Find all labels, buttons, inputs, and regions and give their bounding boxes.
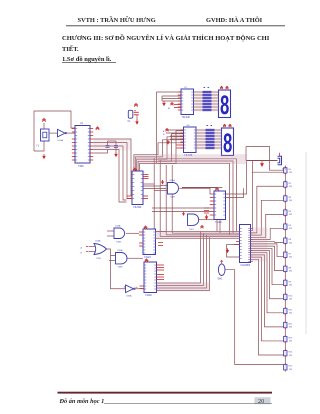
- wire: segment bus 3 wrap to U6: [137, 137, 184, 171]
- buzzer/cap Y2 (oval): [218, 264, 225, 276]
- wire: [162, 100, 181, 102]
- svg-text:330: 330: [289, 284, 292, 286]
- IC U2 7400: [214, 191, 226, 220]
- resistor R14 (ladder): [284, 350, 287, 355]
- power VCC: [201, 226, 204, 229]
- wire: G-top output to U4: [126, 232, 139, 234]
- wire: G5 output to U5: [127, 257, 143, 259]
- svg-text:74LS90: 74LS90: [133, 206, 142, 209]
- wire: U1 QA to U6: [93, 139, 132, 196]
- power VCC: [171, 103, 174, 106]
- IC U3 74LS244: [240, 225, 251, 263]
- footer page-number highlight: [255, 397, 271, 404]
- wire: to ladder element 15: [225, 270, 284, 365]
- wire: G4 out to G5: [107, 249, 116, 256]
- svg-text:R8: R8: [289, 267, 292, 269]
- marker at G1 input: [161, 182, 164, 185]
- ground below C1: [135, 121, 139, 124]
- wire: [212, 91, 219, 93]
- wire: U2 out 2: [226, 188, 244, 197]
- resistor R5 (ladder): [284, 224, 287, 229]
- wire: vertical feeder 5: [171, 165, 173, 233]
- wire: U3 to R1: [251, 172, 284, 231]
- svg-text:330: 330: [289, 327, 292, 329]
- resistor R7 (ladder): [284, 252, 287, 257]
- ground below crystal: [42, 156, 46, 159]
- wire: segment bus 4 wrap to U6: [135, 140, 183, 171]
- wire: [143, 183, 154, 185]
- wire: [215, 147, 222, 149]
- wire: [194, 97, 203, 99]
- wire: vertical feeder 4: [165, 165, 167, 235]
- wire: U3 to R12: [251, 255, 284, 327]
- ground below C3: [114, 154, 118, 157]
- svg-text:U15A: U15A: [117, 249, 123, 252]
- buzzer SP1: [278, 156, 282, 165]
- U3 right pin stubs: [251, 229, 253, 262]
- svg-text:R2: R2: [289, 183, 292, 185]
- buffer U10A: [58, 129, 66, 137]
- wire: to U7 pin A: [157, 91, 182, 93]
- wire: [143, 185, 160, 187]
- wire: [215, 135, 222, 137]
- svg-text:330: 330: [289, 214, 292, 216]
- wire: bus riser right 2: [158, 161, 233, 233]
- wire: [166, 132, 184, 134]
- svg-text:Đồ án môn học 1: Đồ án môn học 1: [59, 398, 105, 405]
- wire: G5 input 2: [109, 260, 116, 262]
- svg-text:7432: 7432: [96, 258, 102, 260]
- wire: segment bus 2 wrap to U6: [138, 134, 183, 171]
- resistor R4 (ladder): [284, 210, 287, 215]
- wire: U3 to R6: [251, 241, 284, 244]
- wire: G-top input 2: [107, 235, 114, 237]
- svg-text:R14: R14: [289, 352, 294, 354]
- wire: [212, 106, 219, 108]
- wire: vertical feeder 1: [156, 92, 158, 163]
- ground at driver1 inputs: [162, 103, 166, 106]
- svg-text:C1: C1: [128, 121, 132, 123]
- footer rule: [58, 392, 273, 394]
- wire: [108, 140, 117, 142]
- wire: bus H1 row 1: [156, 231, 240, 233]
- svg-text:R15: R15: [289, 366, 294, 368]
- wire: buzzer drive: [246, 160, 278, 162]
- power VCC: [215, 188, 219, 191]
- resistor R8 (ladder): [284, 266, 287, 271]
- wire: [196, 135, 206, 137]
- wire: U3 to R3: [251, 200, 284, 235]
- wire: G3 input 1: [182, 187, 217, 189]
- svg-text:R10: R10: [289, 295, 294, 297]
- power VCC: [144, 226, 148, 229]
- IC U8 74LS48 (digit 2 driver): [184, 127, 197, 153]
- svg-text:330: 330: [289, 299, 292, 301]
- resistor R15 (ladder): [284, 365, 287, 370]
- IC U1 7490: [75, 126, 90, 164]
- svg-text:330: 330: [289, 186, 292, 188]
- wire: [170, 138, 184, 140]
- power VCC: [220, 86, 223, 89]
- wire: to U3 enable: [227, 244, 240, 246]
- wire: G1 input 1: [160, 185, 167, 187]
- power VCC: [226, 86, 229, 89]
- wire: buzzer net to ladder top: [246, 147, 284, 171]
- wire: U3 to R14: [251, 259, 284, 355]
- wire: U6 to U2 row 1: [152, 207, 210, 209]
- svg-text:R7: R7: [289, 253, 292, 255]
- wire: U3 to R10: [251, 251, 284, 299]
- wire: U1 QC to U6: [93, 146, 126, 200]
- wire: bus riser right 3: [158, 163, 230, 235]
- wire: [196, 141, 206, 143]
- wire: U2 bottom riser 2: [219, 220, 221, 234]
- wire: G-top input 1: [107, 230, 114, 232]
- svg-text:330: 330: [289, 313, 292, 315]
- wire: G3 output: [199, 219, 214, 221]
- red marks at U3 left: [234, 242, 239, 245]
- wire: [215, 129, 222, 131]
- resistor R10 (ladder): [284, 294, 287, 299]
- svg-text:7408: 7408: [118, 267, 124, 269]
- wire: segment bus 5 wrap to U6: [134, 143, 184, 171]
- svg-text:8: 8: [220, 90, 229, 120]
- svg-text:74122: 74122: [215, 221, 222, 224]
- svg-text:330: 330: [289, 200, 292, 202]
- svg-text:330: 330: [289, 256, 292, 258]
- wire: U5 riser 1: [157, 232, 201, 284]
- wire: segment bus 1 wrap to U6: [140, 131, 184, 171]
- wire: [215, 144, 222, 146]
- svg-text:CHƯƠNG III: SƠ ĐỒ NGUYÊN LÍ VÀ: CHƯƠNG III: SƠ ĐỒ NGUYÊN LÍ VÀ GIẢI THÍC…: [62, 34, 270, 42]
- svg-text:8: 8: [223, 128, 232, 158]
- wire: [156, 231, 167, 233]
- svg-text:U10A: U10A: [58, 139, 64, 142]
- svg-text:74192: 74192: [145, 294, 152, 297]
- wire: oscillator feedback loop: [34, 111, 75, 151]
- wire: vertical feeder 2: [153, 158, 155, 238]
- svg-text:330: 330: [289, 369, 292, 371]
- svg-text:20: 20: [258, 398, 264, 405]
- wire: U3 enable loop: [227, 245, 240, 258]
- IC U6 74LS47: [132, 171, 143, 205]
- wire: bus H1 row 2: [172, 232, 239, 234]
- AND gate U13A (top): [114, 228, 125, 239]
- svg-text:BI: BI: [168, 108, 170, 110]
- wire: U5 riser 4: [157, 237, 210, 291]
- wire: vertical feeder 3: [159, 160, 161, 237]
- svg-text:SW1: SW1: [218, 279, 224, 281]
- power VCC: [223, 124, 226, 127]
- wire: [215, 141, 222, 143]
- bus shading: [93, 91, 267, 291]
- svg-text:U11A: U11A: [170, 179, 176, 182]
- resistor R3 (ladder): [284, 196, 287, 201]
- wire: [196, 147, 206, 149]
- resistor R2 (ladder): [284, 182, 287, 187]
- wire: [194, 94, 203, 96]
- svg-text:R5: R5: [289, 225, 292, 227]
- wire: U3 to R13: [251, 257, 284, 341]
- svg-text:A: A: [163, 130, 165, 133]
- svg-text:R11: R11: [289, 310, 293, 312]
- svg-text:330: 330: [289, 228, 292, 230]
- svg-text:R1: R1: [289, 169, 292, 171]
- power VCC: [166, 129, 169, 132]
- wire: U3 to R4: [251, 214, 284, 237]
- power VCC: [134, 104, 138, 107]
- wire: [196, 129, 206, 131]
- wire: bus H1 row 4: [160, 236, 239, 238]
- AND gate U11A: [168, 183, 179, 195]
- wire: [194, 106, 203, 108]
- marker on U3 enable: [226, 250, 229, 253]
- wire: U5 riser 3: [157, 235, 207, 288]
- svg-text:TIẾT.: TIẾT.: [62, 45, 79, 53]
- wire: bus H1 row 5: [154, 237, 239, 239]
- ground at driver2 inputs: [166, 141, 170, 144]
- wire: [196, 144, 206, 146]
- wire: buffer to U1: [67, 132, 75, 134]
- wire: bus riser right 1: [158, 159, 237, 232]
- wire: U3 to R11: [251, 253, 284, 313]
- buffer U16A: [126, 285, 134, 293]
- wire: [170, 135, 184, 137]
- wire: [194, 91, 203, 93]
- svg-text:U16A: U16A: [126, 295, 132, 298]
- wire: [212, 103, 219, 105]
- wire: G4 input 1: [89, 246, 96, 248]
- svg-text:7408: 7408: [116, 242, 122, 244]
- svg-text:330: 330: [289, 242, 292, 244]
- svg-text:U13A: U13A: [115, 225, 121, 228]
- svg-text:330: 330: [289, 341, 292, 343]
- wire: crystal to buffer: [49, 132, 58, 134]
- svg-text:SVTH : TRẦN HỮU HƯNG: SVTH : TRẦN HỮU HƯNG: [78, 16, 156, 24]
- svg-text:7490: 7490: [78, 165, 84, 168]
- wire: G3 input 2: [182, 187, 223, 189]
- red pin cluster left of U2: [204, 208, 209, 213]
- wire: buzzer net to stair vertical: [251, 161, 253, 173]
- ground on buzzer wire: [260, 163, 264, 167]
- wire: [212, 109, 219, 111]
- capacitor C1: [128, 110, 133, 118]
- svg-text:B: B: [81, 253, 83, 255]
- wire: crystal top stub: [43, 123, 45, 129]
- svg-text:R3: R3: [289, 197, 292, 199]
- power VCC: [229, 124, 232, 127]
- svg-text:7411: 7411: [189, 229, 194, 231]
- svg-text:330: 330: [289, 172, 292, 174]
- wire: U3 to R7: [251, 244, 284, 257]
- wire to C2: [93, 150, 107, 154]
- wire: G1 output to U2: [179, 188, 214, 194]
- svg-text:U14A: U14A: [95, 240, 101, 243]
- crystal Y1: [41, 129, 50, 141]
- wire: U6 to U2 row 2: [152, 211, 210, 213]
- wire: [194, 109, 203, 111]
- wire: U2 bottom riser 1: [216, 220, 218, 232]
- resistor R12 (ladder): [284, 322, 287, 327]
- wire: G4 out to buffer T2: [111, 256, 126, 289]
- AND gate U12B: [188, 214, 199, 225]
- svg-text:330: 330: [289, 270, 292, 272]
- svg-text:ULN2803: ULN2803: [241, 265, 251, 267]
- wire: G4 input 2: [89, 251, 96, 253]
- wire: U1 QB to U6: [93, 143, 132, 199]
- wire: [162, 98, 181, 100]
- svg-text:R9: R9: [289, 281, 292, 283]
- svg-text:R13: R13: [289, 338, 294, 340]
- wire: U3 to R9: [251, 248, 284, 284]
- wire: [215, 138, 222, 140]
- svg-text:1.Sơ đồ nguyên lì.: 1.Sơ đồ nguyên lì.: [62, 56, 112, 63]
- wire: [162, 95, 181, 97]
- IC U4 7400: [143, 229, 156, 255]
- svg-text:GVHD: HÀ A THÔI: GVHD: HÀ A THÔI: [206, 16, 263, 24]
- AND gate U15A: [116, 253, 128, 264]
- svg-text:74LS48: 74LS48: [182, 116, 191, 119]
- svg-text:U1: U1: [80, 123, 84, 125]
- power VCC: [145, 259, 149, 262]
- wire: U3 to R2: [251, 186, 284, 233]
- IC U5 74LS90: [144, 262, 157, 293]
- wire: U2 out to buzzer net: [226, 161, 247, 195]
- faint page shadow: [305, 152, 307, 334]
- wire: [166, 129, 184, 131]
- resistor R6 (ladder): [284, 238, 287, 243]
- wire: [196, 132, 206, 134]
- resistor R13 (ladder): [284, 336, 287, 341]
- marker at G3 input: [182, 213, 185, 216]
- wire: G1 input 2: [154, 190, 167, 192]
- OR gate U14A: [94, 244, 107, 255]
- power VCC: [133, 168, 137, 171]
- header rule: [66, 25, 285, 27]
- wire: [212, 94, 219, 96]
- wire: U3 to R5: [251, 228, 284, 239]
- wire: [194, 100, 203, 102]
- svg-text:Y1: Y1: [36, 145, 40, 148]
- svg-text:R4: R4: [289, 211, 292, 213]
- svg-text:B: B: [163, 134, 165, 136]
- 7-segment display DS2: [222, 128, 234, 156]
- resistor R9 (ladder): [284, 280, 287, 285]
- svg-text:A: A: [81, 247, 83, 250]
- svg-text:R6: R6: [289, 239, 292, 241]
- wire: [215, 132, 222, 134]
- wire: [212, 97, 219, 99]
- svg-text:330: 330: [289, 355, 292, 357]
- 7-segment display DS1: [219, 90, 231, 118]
- ground below U2 cluster: [205, 216, 209, 219]
- resistor R1 (ladder): [284, 168, 287, 173]
- svg-text:R12: R12: [289, 324, 294, 326]
- wire: [196, 138, 206, 140]
- wire: U3 to R8: [251, 246, 284, 271]
- ladder common rail: [284, 166, 286, 371]
- wire: buzzer net vertical: [245, 147, 247, 161]
- wire: crystal bottom: [34, 141, 44, 151]
- power VCC: [96, 127, 100, 130]
- wire: [212, 100, 219, 102]
- svg-text:7408: 7408: [170, 197, 176, 199]
- capacitor C3: [114, 146, 118, 148]
- wire: U1 QD to U6: [93, 150, 126, 203]
- wire: [143, 188, 166, 190]
- wire: buffer out to U5: [135, 288, 144, 290]
- resistor R11 (ladder): [284, 308, 287, 313]
- wire: [194, 103, 203, 105]
- wire: U5 riser 2: [157, 233, 204, 285]
- wire: bus H1 row 3: [166, 234, 239, 236]
- svg-text:74123: 74123: [144, 256, 151, 259]
- power VCC above crystal: [42, 119, 46, 122]
- IC U7 74LS48 (digit 1 driver): [181, 89, 194, 115]
